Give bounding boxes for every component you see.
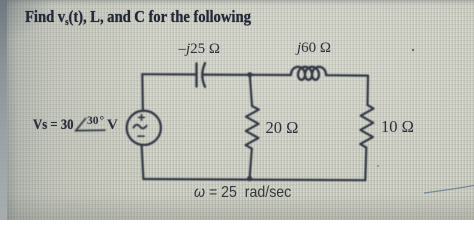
source minus sign	[138, 135, 144, 137]
inductor label j60 ohm	[297, 40, 331, 57]
right branch lower	[365, 148, 366, 181]
source plus sign	[139, 115, 145, 121]
title text	[25, 7, 251, 28]
speck artifact	[412, 49, 414, 51]
middle branch bottom stub	[250, 149, 252, 179]
resistor 20 ohm zigzag	[246, 106, 259, 149]
wire top left	[142, 73, 196, 76]
resistor label 10 ohm	[381, 117, 414, 137]
source sine tilde	[134, 125, 147, 129]
wire top right	[326, 74, 368, 77]
omega label	[194, 184, 291, 202]
node top junction	[247, 72, 252, 77]
inductor L (j60)	[291, 67, 326, 80]
node bottom junction	[247, 176, 252, 181]
source circle U	[127, 111, 161, 145]
wire top mid	[204, 73, 291, 76]
capacitor C (-j25)	[195, 64, 197, 87]
left branch upper	[141, 74, 144, 111]
resistor label 20 ohm	[266, 118, 299, 138]
resistor 10 ohm zigzag	[360, 105, 373, 148]
source label Vs = 30 angle 30 deg V	[33, 117, 74, 134]
pen scratch bottom right	[424, 186, 474, 194]
bottom wire	[143, 179, 365, 180]
middle branch top stub	[250, 75, 252, 106]
capacitor label -j25 ohm	[179, 41, 221, 58]
angle symbol of Vs label	[76, 119, 86, 132]
speck artifact 2	[377, 165, 379, 167]
left branch lower	[142, 145, 144, 179]
right branch down	[366, 76, 369, 105]
